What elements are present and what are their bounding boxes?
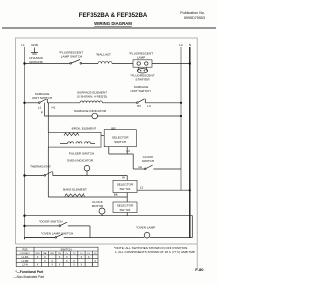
svg-text:L1: L1 bbox=[38, 106, 42, 110]
svg-text:5995D79553: 5995D79553 bbox=[184, 16, 205, 20]
svg-text:—Non-Illustrated Part: —Non-Illustrated Part bbox=[13, 275, 44, 279]
svg-text:SW 701: SW 701 bbox=[119, 187, 130, 191]
svg-text:L3: L3 bbox=[126, 149, 130, 153]
svg-text:SELECTOR: SELECTOR bbox=[117, 183, 134, 187]
svg-text:BAKE ELEMENT: BAKE ELEMENT bbox=[63, 188, 87, 192]
svg-text:H2: H2 bbox=[137, 104, 141, 108]
svg-text:UNIT SWITCH: UNIT SWITCH bbox=[32, 96, 52, 100]
svg-text:BR: BR bbox=[51, 253, 54, 255]
svg-text:*OVEN LAMP SWITCH: *OVEN LAMP SWITCH bbox=[41, 231, 73, 235]
svg-text:*BALLAST: *BALLAST bbox=[96, 53, 111, 57]
svg-text:UNIT SWITCH: UNIT SWITCH bbox=[130, 89, 150, 93]
svg-text:X: X bbox=[37, 264, 39, 267]
svg-text:LAMP: LAMP bbox=[137, 56, 145, 60]
svg-text:SWITCH: SWITCH bbox=[60, 247, 71, 251]
svg-text:WIRING DIAGRAM: WIRING DIAGRAM bbox=[94, 21, 132, 26]
svg-text:SWITCH: SWITCH bbox=[114, 140, 126, 144]
svg-text:SWITCH: SWITCH bbox=[142, 159, 154, 163]
svg-text:BK: BK bbox=[114, 193, 119, 197]
svg-text:POS: POS bbox=[22, 248, 27, 251]
svg-text:*—Functional Part: *—Functional Part bbox=[16, 270, 45, 274]
svg-text:X: X bbox=[59, 264, 61, 267]
svg-text:1. ALL COMPONENTS SHOWN AT 25: 1. ALL COMPONENTS SHOWN AT 25 C (77 F) A… bbox=[115, 250, 196, 254]
svg-text:SURFACE INDICATOR: SURFACE INDICATOR bbox=[74, 109, 107, 113]
svg-text:STARTER: STARTER bbox=[135, 78, 150, 82]
svg-text:L1-BR: L1-BR bbox=[22, 260, 29, 263]
svg-text:L3: L3 bbox=[147, 104, 151, 108]
svg-text:OFF: OFF bbox=[35, 253, 40, 255]
svg-text:MOTOR: MOTOR bbox=[92, 204, 104, 208]
svg-text:(3 SHOWN, 4 REQ'D): (3 SHOWN, 4 REQ'D) bbox=[77, 95, 107, 99]
svg-text:P: P bbox=[41, 111, 43, 115]
svg-text:L1-BA: L1-BA bbox=[22, 256, 29, 259]
svg-text:SW 701: SW 701 bbox=[119, 208, 130, 212]
svg-text:Publication No.: Publication No. bbox=[180, 11, 205, 15]
svg-text:F-80: F-80 bbox=[195, 267, 204, 272]
svg-text:N: N bbox=[189, 43, 191, 47]
svg-text:TC: TC bbox=[73, 253, 76, 255]
svg-text:L2: L2 bbox=[179, 43, 183, 47]
svg-text:BROIL ELEMENT: BROIL ELEMENT bbox=[72, 126, 97, 130]
svg-text:X: X bbox=[81, 264, 83, 267]
svg-text:*OVEN LAMP: *OVEN LAMP bbox=[136, 226, 155, 230]
svg-text:LAMP SWITCH: LAMP SWITCH bbox=[61, 55, 82, 59]
svg-text:PULSER SWITCH: PULSER SWITCH bbox=[69, 152, 94, 156]
svg-text:*DOOR SWITCH: *DOOR SWITCH bbox=[39, 220, 63, 224]
svg-text:SELECTOR: SELECTOR bbox=[117, 204, 134, 208]
svg-text:H1: H1 bbox=[52, 106, 56, 110]
svg-text:X: X bbox=[51, 264, 53, 267]
svg-text:FEF352BA & FEF352BA: FEF352BA & FEF352BA bbox=[79, 12, 148, 19]
svg-text:W: W bbox=[122, 176, 125, 180]
svg-text:X: X bbox=[92, 264, 94, 267]
svg-text:L2-W: L2-W bbox=[22, 264, 28, 267]
svg-text:L1: L1 bbox=[21, 43, 25, 47]
svg-text:GND: GND bbox=[31, 43, 39, 47]
svg-text:OVEN INDICATOR: OVEN INDICATOR bbox=[67, 159, 94, 163]
svg-text:L2: L2 bbox=[140, 185, 144, 189]
svg-text:1A: 1A bbox=[138, 165, 143, 169]
svg-text:X: X bbox=[73, 264, 75, 267]
svg-text:CONTACT: CONTACT bbox=[20, 252, 31, 255]
svg-text:THERMOSTAT: THERMOSTAT bbox=[30, 164, 51, 168]
